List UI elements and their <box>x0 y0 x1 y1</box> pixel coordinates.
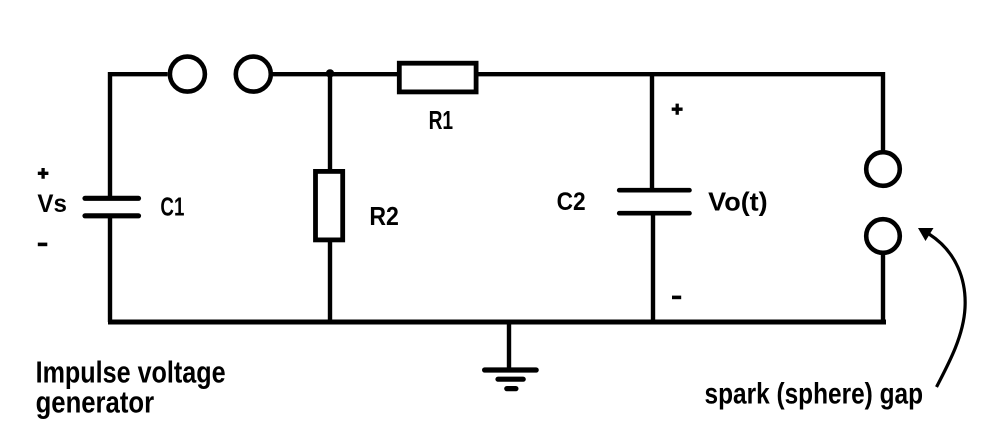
ground bar 1 <box>485 367 537 372</box>
gap electrode circle left <box>170 57 205 92</box>
ground bar 2 <box>498 377 523 382</box>
wire R2 branch upper <box>328 74 332 171</box>
sphere gap upper sphere <box>866 152 900 186</box>
svg-text:C1: C1 <box>160 192 184 222</box>
wire below R2 to bottom rail <box>328 240 332 322</box>
wire from right gap circle to R1 <box>271 72 399 76</box>
plus sign at Vo <box>672 104 683 115</box>
gap electrode circle right <box>236 57 271 92</box>
capacitor C1 top plate <box>85 196 139 201</box>
wire below C1 to bottom rail <box>108 218 112 322</box>
wire C2 column from top rail down <box>650 74 654 190</box>
svg-text:spark (sphere) gap: spark (sphere) gap <box>705 378 924 411</box>
wire from lower sphere down to bottom rail <box>881 255 885 323</box>
node junction dot at R2 tee <box>326 69 334 77</box>
wire top-left from C1 up and right to gap circle <box>110 74 168 198</box>
wire from R1 to top-right corner and down to sphere <box>477 74 883 150</box>
svg-text:Vo(t): Vo(t) <box>708 187 768 217</box>
capacitor C1 bottom plate <box>85 213 139 218</box>
ground stem <box>507 322 511 370</box>
capacitor C2 top plate <box>619 188 689 193</box>
minus sign at Vo <box>672 296 681 300</box>
bottom rail wire <box>108 320 886 325</box>
sphere gap lower sphere <box>866 219 900 253</box>
minus sign at Vs <box>38 243 48 247</box>
plus sign at Vs <box>38 168 49 179</box>
svg-text:generator: generator <box>36 385 155 420</box>
svg-text:R1: R1 <box>429 107 454 135</box>
wire below C2 to bottom rail <box>651 213 655 322</box>
arrow curve to sphere gap <box>929 234 965 387</box>
svg-text:R2: R2 <box>369 201 399 231</box>
capacitor C2 bottom plate <box>619 211 689 216</box>
arrow head <box>918 228 934 241</box>
ground bar 3 <box>507 386 516 391</box>
svg-text:C2: C2 <box>557 188 586 216</box>
resistor R1 <box>399 63 476 92</box>
resistor R2 <box>316 171 343 240</box>
svg-text:Vs: Vs <box>37 190 67 218</box>
